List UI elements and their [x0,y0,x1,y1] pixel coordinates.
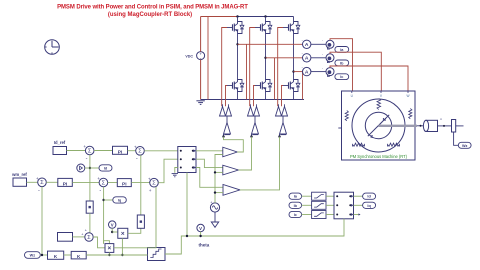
wire X1 out to M2 [128,228,141,233]
wire sum5 to dq2abc in2 [158,159,178,183]
wire dq2abc in3 to ground [175,168,178,173]
wire X2 bottom to speed line [108,252,110,255]
wire collector Q3 top [293,17,295,22]
block abc2dq transform [334,192,354,219]
junction drive leg 1 [222,135,224,137]
svg-text:Wz: Wz [462,144,468,148]
wire X1 bottom to speed line [121,238,123,255]
wire Id feedback down [89,155,91,201]
motor winding top [377,99,381,110]
svg-text:PI: PI [63,181,68,187]
motor stator circle [352,99,405,152]
wire voltmeter stub [200,232,202,236]
svg-text:PMSM Drive with Power and Cont: PMSM Drive with Power and Control in PSI… [57,4,248,10]
block dq2abc transform [178,147,196,173]
tag label Id (output) [363,193,376,199]
svg-text:Σ: Σ [88,148,92,154]
current sensor Ic [326,68,334,77]
junction theta-dq2abc [186,235,188,237]
speed sensor block [452,120,456,133]
wire gate Q6 (red) [282,86,284,107]
summer sum6 [85,233,93,241]
wire abc2dq out3 stub [354,214,359,216]
motor shaft [379,125,418,127]
svg-text:Σ: Σ [152,181,156,187]
svg-text:PM Synchronous Machine (RT): PM Synchronous Machine (RT) [350,154,408,159]
probe voltmeter X1 [109,221,116,228]
svg-text:-: - [322,66,323,70]
ammeter A2 [302,52,311,62]
svg-text:×: × [108,245,112,252]
svg-text:W: W [406,94,409,98]
igbt Q6 (bottom, leg 3) [283,80,300,92]
svg-text:PI: PI [122,182,127,188]
wire junction to X1 [112,231,118,233]
summer sum5 (Vq) [148,176,158,193]
block gain M1 [86,201,93,213]
wire -dc rail [201,99,304,101]
igbt Q5 (bottom, leg 2) [255,80,272,92]
svg-text:Σ: Σ [138,149,142,155]
wire Iq to X2 top [104,241,110,244]
wire gate Q2 (red) [250,28,255,107]
motor winding right [409,109,412,119]
wire vdc to +rail [200,17,202,52]
motor rotor bar [368,115,389,136]
ground main [196,101,204,105]
wire +dc rail left (red) [201,16,238,18]
probe Id scope [77,164,85,172]
wire carrier up to comparators [215,155,223,203]
ammeter A3 [302,65,311,75]
svg-text:N: N [383,117,386,122]
ground carrier (signal) [211,222,218,227]
wire collector Q1 top [237,17,239,22]
svg-text:Ic: Ic [340,75,343,79]
svg-text:-: - [322,52,323,56]
wire junction to Iq tag [104,199,113,201]
wire probe to junction [85,167,90,169]
ground dq2abc [172,174,178,177]
motor left terminal stub [338,127,341,129]
block constant [58,233,73,242]
wire PI2 to sum4 [72,181,99,183]
wire gate Q5 (red) [254,86,256,107]
wire phase A to motor U (red) [330,39,353,91]
wire phase A to ammeter [238,43,303,45]
tag label Ia [335,47,349,53]
svg-text:A: A [305,42,309,48]
wire ammeter to sensor C [311,71,326,73]
igbt Q4 (bottom, leg 1) [227,80,244,92]
svg-text:VDC: VDC [185,54,193,58]
summer sum3 (speed loop) [36,176,46,194]
motor winding lower-left [353,143,365,146]
block gain K1 [48,251,64,259]
wire abc2dq out Iq [354,204,363,206]
wire dq2abc out3 to comparator [196,168,223,188]
junction phase C [292,70,294,72]
junction X2 speed [108,254,110,256]
junction rail leg1 [236,15,238,17]
wire Ia to filter [302,195,312,197]
junction shaft [420,125,422,127]
block multiplier X1 [118,228,128,238]
block PI2 (speed) [58,178,73,187]
junction drive leg 2 [250,135,252,137]
wire sum2 to dq2abc in1 [144,150,178,152]
svg-text:+: + [97,176,100,181]
gate drive pair leg 2 [248,104,260,136]
tag label Ic (input) [289,211,302,217]
block gain M2 [137,215,144,228]
wire X2 out to sum5 [114,187,156,248]
tag label Id (feedback) [99,165,112,171]
tag label Ic [335,74,349,80]
wire leg 2 midpoint [265,34,267,80]
junction drive leg 3 [278,135,280,137]
probe theta voltmeter [197,224,204,231]
svg-text:-: - [38,188,40,194]
wire load to sensor [438,125,452,127]
motor rotor labels [370,117,386,139]
junction X1 in [111,231,113,233]
igbt Q3 (top, leg 3) [283,22,300,34]
tag label Ia (input) [289,193,302,199]
wire constant to sum6 [73,236,85,238]
wire dq2abc theta input [186,173,188,237]
wire Ib to filter [302,204,312,206]
junction Iq tap [102,199,104,201]
wire leg 1 midpoint [237,34,239,80]
dc source VDC [185,51,204,61]
wire aux leg 1 (red) [246,44,248,99]
wire gate Q1 (red) [222,28,227,107]
filter block Ib [312,201,326,209]
wire sum6 to X2 [93,237,105,248]
junction speed feedback [41,254,43,256]
wire leg 3 midpoint [293,34,295,80]
block PI1 (d-axis) [113,146,128,155]
wire sensor stub right [456,125,464,127]
block gain K2 [71,251,86,259]
wire Wz to K1 [40,254,47,256]
wire U3 output to drive 3 [240,137,280,190]
wire phase B to motor V (red) [330,52,381,91]
junction carrier U3 [214,191,216,193]
wire filter to abc2dq Ia [326,195,334,197]
block Id_ref [53,147,67,155]
svg-text:S: S [370,134,373,139]
svg-text:-: - [322,39,323,43]
wire gate Q3 (red) [278,28,283,107]
wire shaft to load [417,125,425,127]
summer sum1 (Id loop) [83,144,94,162]
wire speed feedback down [41,187,43,255]
wire dq2abc out1 to comparator [196,150,223,152]
wire ammeter to sensor B [311,57,326,59]
comparator U2 (phase b) [223,165,239,175]
svg-text:V: V [111,223,114,228]
svg-text:Σ: Σ [102,180,106,186]
svg-text:+: + [134,144,137,149]
junction load [443,125,445,127]
current sensor Ia [326,40,334,49]
motor rotor circle [365,112,391,138]
gate drive pair leg 1 [220,104,232,136]
block multiplier X2 [105,244,114,253]
tag label Wz (load speed) [458,142,471,148]
tag label Ib (input) [289,202,302,208]
tag label Wz (speed feedback) [25,252,41,259]
svg-text:Id_ref: Id_ref [54,140,66,145]
carrier source Vtri [210,200,219,212]
motor block PM Synchronous Machine (RT) [342,91,416,160]
filter block Ia [312,192,326,200]
svg-text:(using MagCoupler-RT Block): (using MagCoupler-RT Block) [108,12,192,18]
summer sum2 (Vd) [134,144,144,162]
comparator U1 (phase a) [223,147,238,157]
svg-text:Σ: Σ [87,235,91,241]
wire wm_ref to sum3 [27,181,38,183]
svg-text:-: - [99,188,101,194]
wire Ic to filter [302,214,312,216]
tag label Iq (feedback) [113,197,127,203]
svg-text:+: + [210,200,212,204]
junction phase B [264,57,266,59]
wire abc2dq out Id [354,195,363,197]
junction rail leg2 [264,15,266,17]
svg-text:+: + [83,144,86,149]
wire carrier to U2 [215,171,223,173]
svg-text:-: - [86,156,88,162]
igbt Q2 (top, leg 2) [255,22,272,34]
wire Id_ref to sum1 [67,150,86,152]
svg-text:-: - [136,156,138,162]
svg-text:+: + [148,176,151,181]
wire PI3 to sum5 [131,182,149,184]
wire sum4 to PI3 [108,182,118,184]
svg-text:PI: PI [118,149,123,155]
wire U1 output to drive 1 [224,137,244,152]
block wm_ref [13,178,27,186]
wire gate Q4 (red) [226,86,228,107]
wire aux leg 3 (red) [302,72,304,100]
wire PI1 to sum2 [128,150,136,152]
wire aux leg 2 (red) [274,58,276,100]
block PI3 (q-axis) [117,179,131,188]
junction carrier U2 [214,171,216,173]
wire emitter Q4 to -rail [237,92,239,100]
svg-text:A: A [305,70,309,76]
wire carrier source to ground [214,212,216,222]
filter block Ic [312,211,326,219]
wire M1 to sum6 [89,213,91,232]
wire filter to abc2dq Ic [326,214,334,216]
clock symbol [45,40,60,55]
block zero-order-hold [148,248,166,261]
wire Iq feedback down [103,187,105,244]
wire sum1 to PI1 [94,150,113,152]
comparator U3 (phase c) [223,185,240,196]
wire theta line [165,219,344,254]
svg-text:Σ: Σ [40,180,44,186]
wire U2 output to drive 2 [239,137,252,170]
svg-text:A: A [305,56,309,62]
svg-text:+: + [36,176,39,181]
ammeter A1 [302,38,311,48]
summer sum4 (Iq loop) [97,176,107,194]
motor winding lower-right [388,143,400,146]
svg-text:×: × [121,230,125,237]
wire speed line to ZOH [86,254,147,256]
svg-text:Ic: Ic [294,213,297,217]
wire carrier to U3 [215,192,223,194]
tag label Ib [335,60,349,66]
title text [57,4,248,17]
wire junction to Id tag [90,167,99,169]
motor winding left [345,111,348,121]
svg-text:wm_ref: wm_ref [11,172,27,177]
junction theta probe [199,235,201,237]
wire sensor to Wz tag [454,132,459,145]
igbt Q1 (top, leg 1) [227,22,244,34]
wire vdc to ground [200,60,202,100]
tag label Iq (output) [363,202,376,208]
wire ammeter to sensor A [311,43,326,45]
wire collector Q2 top [265,17,267,22]
wire K1 to K2 [64,254,71,256]
wire sum3 to PI2 [46,181,58,183]
junction phase A [236,43,238,45]
junction X1 speed [121,254,123,256]
wire sum2 feedback down [140,155,142,215]
svg-text:theta: theta [199,243,210,248]
wire aux dc left (red) [207,17,209,100]
gate drive pair leg 3 [276,104,288,136]
junction Id tap [89,167,91,169]
wire phase C to motor W (red) [330,66,408,91]
load cylinder (inertia) [423,119,441,132]
svg-text:Wz: Wz [30,254,36,258]
wire filter to abc2dq Ib [326,204,334,206]
wire phase B to ammeter [266,57,303,59]
wire dq2abc out2 to comparator [196,159,223,167]
wire +dc rail [238,16,294,18]
svg-text:V: V [199,226,202,231]
wire emitter Q6 to -rail [293,92,295,100]
wire voltmeter X1 stub [111,228,113,232]
svg-text:+: + [149,188,152,193]
wire phase C to ammeter [294,71,303,73]
wire emitter Q5 to -rail [265,92,267,100]
current sensor Ib [326,54,334,63]
